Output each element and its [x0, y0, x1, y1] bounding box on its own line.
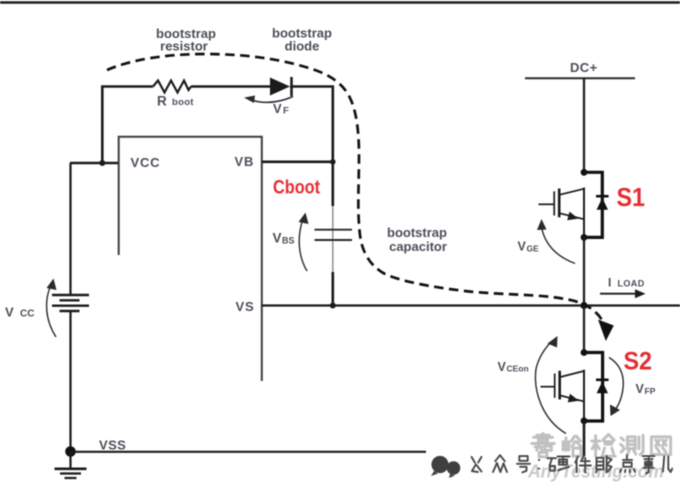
battery V CC [69, 163, 71, 295]
watermark text (drawn glyphs) [532, 434, 671, 457]
svg-text:I: I [608, 276, 611, 290]
caption glyph shi [643, 455, 655, 457]
wire: top rail right segment [290, 85, 334, 88]
svg-text:bootstrap: bootstrap [387, 225, 447, 240]
caption glyph gong [472, 457, 475, 463]
svg-text:R: R [157, 94, 167, 109]
wire: DC+ drop to S1 [583, 78, 585, 172]
IC box (gate driver) [119, 137, 262, 381]
svg-text:CEon: CEon [507, 364, 529, 374]
caption glyph jian2 [575, 457, 578, 463]
diode D boot [270, 78, 290, 96]
junction dot at VS / phase node [580, 302, 587, 309]
wire: horizontal into VCC pin [70, 162, 119, 164]
wire: top rail mid segment [191, 85, 270, 88]
wire: S2 emitter down [583, 421, 586, 456]
svg-text:GE: GE [527, 244, 540, 254]
wire: DC+ rail [525, 77, 635, 79]
capacitor Cboot: top lead [331, 162, 334, 206]
ground symbol [69, 452, 71, 469]
svg-text:FP: FP [645, 386, 656, 396]
wire: VS rail [262, 304, 680, 306]
caption glyph colon [538, 459, 541, 461]
svg-text:V: V [518, 240, 527, 254]
svg-text:BS: BS [282, 236, 295, 246]
I LOAD arrow (pointing right) [600, 293, 637, 295]
svg-text:diode: diode [285, 39, 320, 54]
svg-text:DC+: DC+ [570, 60, 598, 75]
dark caption glyphs (drawn) [472, 455, 673, 473]
capacitor Cboot: plates [315, 229, 353, 231]
wire: left drop from top rail [101, 86, 104, 164]
junction dot VB node [330, 159, 336, 165]
caption glyph dian [626, 455, 628, 460]
caption glyph ying [548, 457, 557, 459]
caption glyph hao [519, 456, 527, 461]
S1 IGBT body [539, 203, 554, 205]
dashed path arrowhead [598, 320, 614, 342]
svg-text:F: F [283, 106, 289, 117]
wechat icon [431, 456, 460, 478]
caption glyph zhong [495, 455, 500, 461]
wire: S1 emitter to VS rail [583, 237, 585, 305]
svg-text:boot: boot [172, 97, 194, 108]
svg-text:V: V [273, 231, 282, 246]
S1 collector junction dot [581, 169, 588, 176]
svg-text:resistor: resistor [160, 39, 208, 54]
watermark glyph jian [594, 436, 597, 457]
svg-text:V: V [273, 101, 282, 116]
capacitor Cboot: thin mid lead [332, 206, 334, 272]
wire: VSS rail [71, 451, 427, 453]
S2 IGBT body [541, 386, 555, 388]
dashed bootstrap current path [107, 54, 602, 320]
capacitor Cboot: bottom lead [331, 272, 334, 306]
S2 freewheel diode [596, 378, 609, 381]
VF arrow (curved, pointing left) [250, 97, 293, 103]
caption glyph na [597, 458, 604, 470]
VGE arrow (curved, pointing up) [542, 227, 576, 264]
svg-text:VB: VB [235, 154, 255, 169]
watermark glyph jia [542, 434, 545, 437]
S2 emitter junction dot [581, 417, 588, 424]
watermark glyph yu [562, 442, 565, 450]
svg-text:V: V [498, 360, 507, 374]
wire: VB pin to Cboot node [262, 161, 333, 164]
wire: top rail left segment [101, 85, 153, 88]
wire: right drop from top rail to VB [331, 86, 334, 163]
top border line [0, 1, 680, 4]
transistor S2 (IGBT with freewheel diode) [541, 349, 609, 424]
svg-text:Cboot: Cboot [273, 177, 320, 199]
S1 diode branch (thick) [584, 172, 602, 237]
VFP arrow (arc right of diode, pointing down-left) [609, 358, 623, 411]
VCEon arrow (big arc, pointing up) [535, 341, 566, 434]
svg-text:capacitor: capacitor [389, 239, 447, 254]
S2 diode branch (thick) [584, 353, 603, 422]
VBS arrow (curved, pointing up) [299, 219, 307, 271]
watermark glyph ce [621, 438, 624, 440]
svg-text:V: V [5, 305, 14, 320]
watermark glyph wang [651, 437, 670, 455]
S1 emitter junction dot [581, 234, 588, 241]
svg-text:LOAD: LOAD [618, 279, 645, 289]
wire: VS node down to S2 [583, 306, 585, 353]
svg-text:VCC: VCC [131, 155, 161, 170]
junction dot VSS node [65, 446, 76, 457]
S2 collector junction dot [581, 349, 588, 356]
junction dot at VS rail [330, 303, 336, 309]
caption glyph er [663, 457, 664, 472]
resistor R boot [153, 81, 191, 93]
svg-text:VSS: VSS [99, 438, 126, 453]
S1 freewheel diode [596, 195, 609, 198]
svg-text:VS: VS [236, 299, 255, 314]
svg-text:V: V [636, 382, 645, 396]
V CC arrow (curved, pointing up) [47, 285, 56, 337]
transistor S1 (IGBT with freewheel diode) [539, 169, 609, 241]
junction dot at VCC tap [99, 160, 105, 166]
svg-text:S1: S1 [617, 182, 646, 212]
svg-text:S2: S2 [624, 348, 653, 376]
svg-text:CC: CC [20, 309, 34, 320]
